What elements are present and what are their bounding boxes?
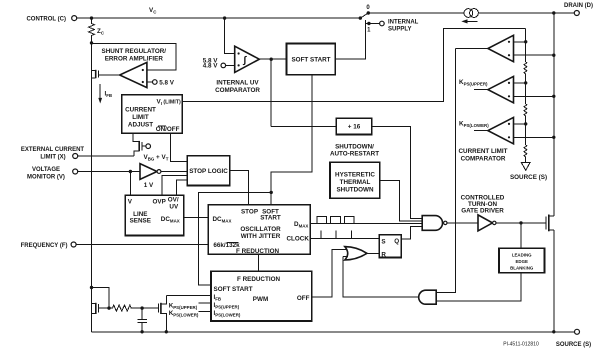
svg-text:COMPARATOR: COMPARATOR — [215, 87, 260, 94]
wire thermal shutdown output to NAND — [380, 181, 422, 221]
svg-text:SENSE: SENSE — [130, 217, 151, 224]
node junction MOSFET source rail — [552, 330, 555, 333]
wire LEB output to AND gate — [436, 273, 521, 301]
wire comparator output to AND input — [436, 49, 455, 293]
svg-text:Q: Q — [394, 238, 399, 245]
wire UV/soft-start line into oscillator + PWM soft start branch — [270, 191, 273, 194]
wire OR output to latch R — [367, 252, 379, 254]
svg-text:OFF: OFF — [297, 295, 310, 302]
node junction below ZC — [90, 41, 93, 44]
svg-text:OVP: OVP — [153, 198, 166, 205]
current source internal supply — [461, 9, 478, 24]
wire latch Q output to NAND — [401, 227, 422, 240]
svg-text:5.8 V: 5.8 V — [159, 79, 175, 86]
wire Q2 drain to PWM IFB — [166, 294, 211, 296]
wire IPS(LOWER) input — [199, 310, 212, 312]
svg-text:SUPPLY: SUPPLY — [388, 26, 411, 32]
svg-text:SOFT START: SOFT START — [214, 286, 253, 293]
svg-text:R: R — [381, 252, 386, 259]
wire bottom source rail — [92, 331, 575, 333]
op-amp error amplifier — [120, 62, 147, 87]
wire output MOSFET source to bottom rail — [553, 230, 555, 332]
svg-text:WITH JITTER: WITH JITTER — [241, 233, 281, 240]
resistor frequency set R — [109, 305, 158, 311]
transistor KPS MOSFET Q2 — [158, 295, 166, 331]
block +16 counter — [336, 118, 372, 134]
comparator internal UV U2 — [235, 46, 260, 72]
svg-text:CURRENT: CURRENT — [125, 107, 156, 114]
svg-text:START: START — [260, 214, 281, 221]
block SHUNT REGULATOR / ERROR AMPLIFIER label box — [92, 44, 176, 70]
node junction lower rail left — [90, 286, 93, 289]
wire left rail — [91, 43, 93, 332]
svg-text:S: S — [381, 238, 385, 245]
node DRAIN (D) pin — [564, 3, 593, 16]
wire VC top rail — [77, 17, 361, 19]
node INTERNAL SUPPLY terminal — [380, 20, 419, 33]
wire UV comparator output — [259, 58, 286, 60]
svg-text:ON/OFF: ON/OFF — [156, 126, 180, 133]
wire V branch to line sense — [129, 172, 131, 196]
transistor output MOSFET — [546, 215, 554, 232]
block CURRENT LIMIT ADJUST — [122, 95, 183, 134]
svg-text:SHUTDOWN: SHUTDOWN — [336, 186, 374, 193]
node junction drain — [552, 11, 555, 14]
node FREQUENCY (F) pin — [21, 242, 76, 249]
waveform DMAX pulses — [317, 216, 354, 223]
wire UV output down branch — [270, 59, 272, 126]
svg-text:FREQUENCY (F): FREQUENCY (F) — [21, 243, 68, 249]
node junction gate/LEB — [519, 221, 522, 224]
resistor ZC — [89, 18, 105, 43]
wire AND(current limit) output to OR gate — [343, 256, 348, 258]
svg-text:F REDUCTION: F REDUCTION — [237, 276, 280, 283]
svg-text:SOURCE (S): SOURCE (S) — [556, 342, 591, 348]
svg-text:F REDUCTION: F REDUCTION — [236, 248, 279, 255]
wire VI(LIMIT) to comparator ladder — [182, 29, 525, 102]
svg-text:PI-4511-012810: PI-4511-012810 — [503, 342, 539, 348]
block LEADING EDGE BLANKING — [499, 248, 545, 272]
node junction cap to rail — [140, 330, 143, 333]
wire PWM OFF output to OR gate — [312, 250, 348, 298]
svg-text:1 V: 1 V — [144, 182, 154, 189]
svg-text:CONTROL (C): CONTROL (C) — [26, 16, 66, 22]
svg-text:CURRENT LIMIT: CURRENT LIMIT — [459, 148, 508, 155]
transistor mirror MOSFET Q1 — [92, 303, 110, 314]
ground SOURCE (S) arrow — [510, 162, 547, 181]
svg-text:INTERNAL UV: INTERNAL UV — [216, 79, 259, 86]
wire drain rail top — [368, 12, 464, 14]
or-gate reset OR — [345, 247, 367, 260]
and-gate current limit AND (points left) — [419, 290, 437, 304]
node junction C-rail — [90, 16, 93, 19]
svg-text:+ 16: + 16 — [348, 124, 361, 131]
capacitor C1 — [137, 308, 146, 332]
svg-text:UV: UV — [169, 203, 179, 210]
comparator current limit comparator top — [488, 35, 554, 61]
wire OV/UV to stop logic — [177, 180, 188, 195]
svg-text:EXTERNAL CURRENT: EXTERNAL CURRENT — [21, 147, 85, 153]
wire X pin to VBG MOSFET — [78, 155, 135, 157]
svg-text:HYSTERETIC: HYSTERETIC — [335, 171, 375, 178]
svg-text:LIMIT (X): LIMIT (X) — [40, 155, 65, 161]
svg-text:AUTO-RESTART: AUTO-RESTART — [330, 151, 379, 158]
block OSCILLATOR WITH JITTER — [208, 205, 310, 255]
svg-text:CLOCK: CLOCK — [287, 236, 310, 243]
svg-text:VI (LIMIT): VI (LIMIT) — [157, 98, 181, 106]
svg-text:SOFT START: SOFT START — [291, 56, 330, 63]
wire soft start to switch position 1 — [335, 20, 365, 59]
node VOLTAGE MONITOR (V) pin — [27, 167, 78, 181]
node SOURCE (S) pin bottom — [556, 329, 591, 348]
svg-text:SOURCE (S): SOURCE (S) — [510, 174, 547, 181]
buffer gate driver — [478, 215, 496, 231]
svg-text:BLANKING: BLANKING — [510, 266, 534, 271]
transistor shunt-regulator MOSFET — [92, 70, 120, 78]
wire UV comparator upper input from VC rail — [225, 18, 235, 53]
svg-text:VBG + VT: VBG + VT — [144, 154, 169, 162]
node UV threshold terminal 5.8/4.8 V — [203, 57, 235, 69]
node drain rail taps — [552, 54, 555, 57]
wire mirror gate branch — [92, 288, 110, 309]
svg-text:INTERNAL: INTERNAL — [388, 20, 419, 26]
comparator KPS(UPPER) — [459, 76, 554, 102]
svg-text:PWM: PWM — [253, 296, 268, 303]
op-amp 1V buffer — [140, 164, 161, 190]
svg-text:GATE DRIVER: GATE DRIVER — [461, 207, 504, 214]
svg-text:STOP: STOP — [241, 209, 258, 216]
wire stop logic output to oscillator STOP — [230, 170, 249, 204]
wire CLOCK output to latch S — [310, 237, 379, 239]
wire reference ladder — [525, 29, 527, 63]
wire ON/OFF to stop logic — [171, 133, 188, 161]
svg-text:LEADING: LEADING — [512, 253, 532, 258]
wire V pin line — [78, 171, 140, 173]
wire soft start box bottom branch — [271, 75, 312, 205]
wire IPS(UPPER) input — [199, 302, 212, 304]
wire gate driver output to output MOSFET gate — [496, 222, 546, 224]
node VBG+VT terminal — [144, 144, 169, 162]
wire OVP to stop logic — [162, 176, 187, 196]
flip-flop SR latch — [379, 235, 401, 259]
node junction UV output — [270, 58, 273, 61]
wire IFB current arrow — [99, 84, 101, 99]
wire frequency line — [76, 244, 208, 246]
node CONTROL (C) pin — [26, 16, 76, 23]
svg-text:VOLTAGE: VOLTAGE — [32, 167, 60, 173]
wire NAND output to gate driver — [447, 222, 478, 224]
svg-text:ERROR AMPLIFIER: ERROR AMPLIFIER — [105, 56, 164, 63]
wire +16 output to NAND — [372, 126, 422, 218]
resistor ladder R1 — [524, 62, 527, 104]
transistor VBG MOSFET — [133, 133, 146, 156]
node 5.8 V reference terminal — [147, 79, 175, 86]
resistor ladder R2 — [524, 104, 527, 145]
wire F REDUCTION connector — [258, 254, 260, 271]
wire drain vertical rail — [553, 13, 555, 216]
wire comparator 1 output — [456, 48, 488, 50]
node junction Q2 source to rail — [165, 330, 168, 333]
block F REDUCTION / PWM — [211, 271, 312, 321]
svg-text:ADJUST: ADJUST — [128, 122, 153, 129]
wire DCMAX to oscillator — [184, 217, 209, 219]
node ladder taps — [524, 40, 527, 43]
wire buffer output to stop logic — [161, 171, 187, 173]
node EXTERNAL CURRENT LIMIT (X) pin — [21, 147, 85, 161]
block HYSTERETIC THERMAL SHUTDOWN — [330, 162, 380, 198]
node junction RC — [140, 306, 143, 309]
block SOFT START (top) — [287, 43, 336, 74]
svg-text:EDGE: EDGE — [515, 259, 528, 264]
svg-text:OSCILLATOR: OSCILLATOR — [240, 226, 281, 233]
switch internal supply selector — [359, 5, 380, 33]
wire DMAX output to NAND — [310, 223, 422, 225]
block STOP LOGIC — [187, 156, 230, 186]
wire AND output to OR input — [343, 257, 419, 298]
node junction V monitor — [129, 170, 132, 173]
comparator KPS(LOWER) — [459, 117, 554, 143]
svg-text:STOP LOGIC: STOP LOGIC — [189, 168, 228, 175]
node junction UV feed — [223, 16, 226, 19]
block LINE SENSE — [125, 195, 184, 235]
svg-text:THERMAL: THERMAL — [340, 179, 371, 186]
svg-text:MONITOR (V): MONITOR (V) — [27, 175, 65, 181]
wire to leading edge blanking — [520, 223, 522, 249]
svg-text:4.8 V: 4.8 V — [203, 62, 219, 69]
resistor ladder R3 — [524, 145, 527, 162]
wire feed to +16 counter — [271, 125, 336, 127]
svg-text:COMPARATOR: COMPARATOR — [461, 156, 506, 163]
svg-text:SHUNT REGULATOR/: SHUNT REGULATOR/ — [102, 48, 167, 55]
svg-text:LIMIT: LIMIT — [132, 114, 149, 121]
nand-gate drive NAND — [422, 216, 447, 231]
svg-text:DRAIN (D): DRAIN (D) — [564, 3, 593, 9]
waveform clock ticks — [317, 231, 357, 239]
node junction mirror gate — [107, 306, 110, 309]
